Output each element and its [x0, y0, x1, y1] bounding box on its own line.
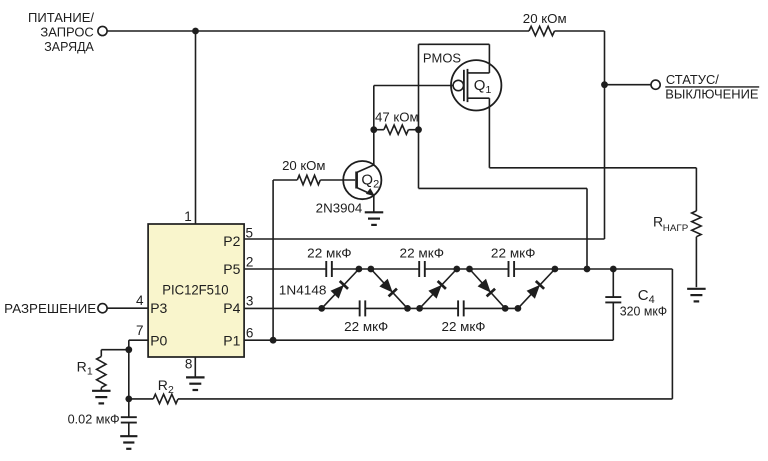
svg-text:P5: P5 [223, 261, 240, 277]
junction D2 anode [368, 266, 375, 273]
svg-text:PIC12F510: PIC12F510 [162, 282, 229, 298]
svg-text:20 кОм: 20 кОм [282, 159, 325, 173]
junction D3 anode [416, 305, 423, 312]
junction C4 top [610, 266, 617, 273]
svg-text:6: 6 [246, 325, 254, 340]
wire P4 row segment 2 [365, 307, 458, 309]
svg-text:1: 1 [184, 209, 192, 224]
IC PIC12F510 body [148, 224, 244, 357]
wire P0 left [129, 339, 148, 341]
svg-text:НАГР: НАГР [663, 223, 689, 234]
capacitor C2 22 мкФ [418, 261, 420, 277]
junction P0/R1 [125, 346, 132, 353]
svg-text:22 мкФ: 22 мкФ [400, 247, 445, 261]
svg-text:0.02 мкФ: 0.02 мкФ [68, 412, 120, 426]
svg-text:P0: P0 [150, 333, 167, 349]
resistor R1 [100, 350, 102, 357]
pin 8 stub [194, 357, 196, 377]
svg-text:P4: P4 [223, 300, 240, 316]
svg-text:Q: Q [361, 172, 373, 189]
svg-text:7: 7 [136, 323, 144, 338]
svg-text:1: 1 [486, 84, 492, 96]
svg-text:2: 2 [246, 255, 254, 270]
wire P2 status line [244, 238, 604, 240]
ground 0.02 мкФ [120, 435, 137, 437]
capacitor C4 320 мкФ [612, 269, 614, 297]
ground R1 [92, 390, 111, 392]
wire Q2 gate line [374, 85, 453, 87]
svg-text:СТАТУС/: СТАТУС/ [666, 73, 720, 87]
wire to R1 [101, 349, 129, 351]
svg-text:R: R [653, 213, 663, 229]
junction 47k right [415, 126, 422, 133]
resistor 20 кОм base [273, 179, 297, 181]
svg-text:5: 5 [246, 226, 254, 241]
wire PMOS top edge [419, 43, 490, 45]
node ПИТАНИЕ/ЗАПРОС ЗАРЯДА terminal [98, 26, 107, 35]
resistor R2 [129, 398, 154, 400]
svg-text:P1: P1 [223, 332, 240, 348]
svg-text:R: R [77, 359, 87, 375]
wire P5 row segment 2 [332, 268, 419, 270]
diode D3 1N4148 [420, 269, 457, 308]
wire P4 row segment 1 [244, 307, 359, 309]
wire to status terminal [605, 84, 652, 86]
svg-text:320 мкФ: 320 мкФ [620, 305, 667, 319]
node РАЗРЕШЕНИЕ terminal [98, 304, 107, 313]
junction D5 cathode [552, 266, 559, 273]
resistor 47 кОм [374, 129, 384, 131]
svg-text:22 мкФ: 22 мкФ [442, 320, 486, 334]
svg-text:РАЗРЕШЕНИЕ: РАЗРЕШЕНИЕ [4, 301, 96, 316]
wire P5 row segment 1 [244, 268, 326, 270]
svg-text:ЗАПРОС: ЗАПРОС [40, 25, 93, 40]
wire enable to P3 [107, 307, 148, 309]
svg-text:C: C [638, 287, 649, 304]
wire R2 to output feedback [178, 398, 672, 400]
svg-text:Q: Q [474, 77, 486, 94]
ground Q2 emitter [365, 211, 384, 213]
junction D2 cathode [404, 305, 411, 312]
junction D5 anode [515, 305, 522, 312]
diode D1 1N4148 [322, 269, 359, 308]
resistor R НАГР [695, 168, 697, 211]
svg-text:47 кОм: 47 кОм [375, 110, 419, 124]
wire base vertical [272, 180, 274, 340]
svg-text:P3: P3 [150, 300, 167, 316]
svg-text:P2: P2 [223, 233, 240, 249]
wire PMOS source loop [418, 44, 420, 188]
capacitor C1 22 мкФ [325, 261, 327, 277]
capacitor C6 22 мкФ [457, 300, 459, 316]
svg-text:2: 2 [373, 179, 379, 191]
wire PMOS drain to load [488, 98, 490, 168]
node СТАТУС/ВЫКЛЮЧЕНИЕ terminal [651, 80, 660, 89]
svg-text:2: 2 [168, 384, 174, 396]
wire P4 row segment 3 [464, 307, 518, 309]
svg-text:R: R [158, 377, 168, 393]
svg-text:20 кОм: 20 кОм [523, 12, 567, 26]
junction R2/C feedback node [125, 396, 132, 403]
wire to PIC pin 1 [195, 31, 197, 224]
svg-text:4: 4 [136, 293, 144, 308]
wire pump output row [514, 268, 672, 270]
svg-text:2N3904: 2N3904 [316, 200, 363, 215]
diode D4 1N4148 [470, 269, 506, 308]
svg-text:ПИТАНИЕ/: ПИТАНИЕ/ [28, 10, 94, 25]
junction D1 cathode [356, 266, 363, 273]
resistor 20 кОм pull-up [529, 26, 555, 35]
svg-text:1N4148: 1N4148 [279, 282, 327, 297]
svg-text:8: 8 [185, 356, 193, 371]
diode D5 1N4148 [518, 269, 555, 308]
wire supply to status vertical [555, 30, 605, 32]
ground pin 8 [186, 376, 205, 378]
svg-text:1: 1 [87, 365, 93, 377]
junction status [601, 81, 608, 88]
wire P1 row [244, 339, 613, 341]
wire P5 row segment 3 [425, 268, 509, 270]
Q2 collector [357, 165, 374, 173]
junction D4 anode [466, 266, 473, 273]
junction gate/47k left [370, 126, 377, 133]
diode D2 1N4148 [371, 269, 408, 308]
ground R НАГР [687, 288, 706, 290]
wire supply rail [107, 30, 529, 32]
Q2 emitter with arrow [357, 188, 374, 196]
transistor Q1 PMOS body [451, 60, 501, 110]
junction P1/base resistor [270, 337, 277, 344]
svg-text:3: 3 [246, 294, 254, 309]
capacitor C3 22 мкФ [508, 261, 510, 277]
junction D3 cathode [453, 266, 460, 273]
transistor Q2 2N3904 body [343, 161, 381, 199]
svg-text:22 мкФ: 22 мкФ [344, 320, 388, 334]
svg-text:22 мкФ: 22 мкФ [307, 247, 352, 261]
junction PMOS source [584, 266, 591, 273]
junction D4 cathode [502, 305, 509, 312]
svg-text:ВЫКЛЮЧЕНИЕ: ВЫКЛЮЧЕНИЕ [665, 88, 758, 102]
junction D1 anode [318, 305, 325, 312]
svg-text:ЗАРЯДА: ЗАРЯДА [44, 39, 94, 54]
junction supply/pin1 [192, 28, 199, 35]
svg-text:22 мкФ: 22 мкФ [491, 247, 536, 261]
svg-text:PMOS: PMOS [423, 51, 462, 66]
capacitor C5 22 мкФ [359, 300, 361, 316]
capacitor 0.02 мкФ [128, 399, 130, 417]
